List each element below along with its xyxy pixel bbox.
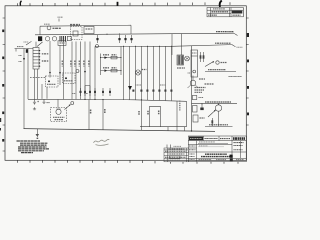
revision header text bbox=[213, 8, 225, 10]
label Q1 bbox=[142, 69, 147, 71]
diode CR10 bbox=[80, 88, 82, 96]
test point ring bbox=[71, 102, 74, 105]
wire: mid bus A bbox=[28, 98, 134, 101]
rectifier ladder wires bbox=[100, 54, 102, 76]
terminal box TB1 bbox=[58, 41, 66, 46]
wire: L1 drop to L2 bbox=[130, 25, 132, 34]
diode CR11 bbox=[84, 88, 86, 96]
secondary drop wire 9 bbox=[171, 46, 173, 100]
label -12V out bbox=[209, 124, 228, 126]
title cells text bbox=[205, 138, 218, 140]
wire: mid bus B bbox=[134, 100, 187, 102]
diode CR18 bbox=[140, 90, 142, 92]
wire: AC input line bbox=[15, 48, 34, 50]
transistor Q1 bbox=[135, 70, 140, 75]
tap switch blade bbox=[37, 42, 43, 47]
primary vertical wire J1-6 bbox=[89, 42, 91, 100]
secondary drop wire 2 bbox=[129, 46, 131, 100]
node (6) circle bbox=[96, 45, 99, 48]
wire row A bbox=[101, 57, 122, 59]
wire: cap drop C9 bbox=[102, 100, 104, 130]
box divider bbox=[191, 55, 198, 57]
wire: T1 bottom leg 1 bbox=[34, 69, 36, 99]
junction dot secondary bbox=[49, 72, 51, 74]
meter top bar bbox=[57, 108, 61, 110]
resistor R28 bbox=[193, 115, 198, 122]
adjust terminal bbox=[216, 61, 219, 64]
label C9 bbox=[104, 109, 106, 114]
edge specks bbox=[0, 118, 1, 131]
diode CR16 bold bbox=[128, 86, 132, 90]
frame tick marks right bbox=[246, 18, 248, 125]
label adjust bbox=[221, 62, 227, 64]
handwritten mark bbox=[220, 1, 222, 7]
wire: strap stub 2 bbox=[46, 87, 48, 99]
parts grid (sub table) bbox=[164, 148, 188, 162]
frame tick marks left bbox=[3, 18, 5, 151]
secondary drop wire 6 bbox=[153, 46, 155, 100]
label in box bbox=[192, 52, 197, 54]
wire: aux output line bbox=[205, 70, 236, 72]
wire: main bus L2 bbox=[35, 33, 234, 35]
junction dots on L3 bbox=[123, 46, 172, 47]
label near border bbox=[229, 76, 242, 78]
wire: gnd stub bbox=[36, 129, 38, 134]
hp logo cell bbox=[189, 137, 203, 141]
primary vertical wire J1-3 bbox=[75, 42, 77, 100]
wire: secondary bus L3 bbox=[95, 45, 172, 47]
label R35 bbox=[90, 110, 92, 115]
label 115V bbox=[42, 53, 49, 55]
wire: reg feed vertical bbox=[171, 34, 173, 56]
label U1 bbox=[177, 67, 185, 69]
junction dot bottom bus bbox=[191, 130, 192, 131]
test point arrow TP1 bbox=[65, 104, 71, 109]
junction dots mid bus bbox=[84, 99, 142, 101]
notes text block bbox=[17, 141, 50, 153]
part number line bbox=[198, 142, 228, 144]
transistor Q3 bbox=[190, 80, 196, 86]
wire: T1 secondary left bbox=[49, 41, 51, 78]
wire: common output line bbox=[192, 103, 238, 105]
secondary drop wire 8 bbox=[165, 46, 167, 100]
fuse F2 (dark) bbox=[26, 49, 28, 53]
resistor R21 bbox=[200, 52, 202, 62]
transistor Q2 bbox=[185, 56, 190, 61]
resistor R25 bbox=[192, 96, 197, 100]
pass element box bbox=[191, 50, 198, 77]
diode CR30 bbox=[200, 108, 203, 111]
diode CR20 bbox=[152, 90, 154, 92]
label sense bbox=[215, 42, 231, 44]
wire: stub below filter box 2 bbox=[184, 127, 186, 131]
label meter bbox=[53, 117, 65, 119]
label common out bbox=[205, 101, 231, 103]
junction blob bbox=[23, 58, 25, 60]
wire: strap stub 1 bbox=[41, 84, 43, 99]
signature rows bbox=[189, 146, 196, 150]
T1 tap dots bbox=[39, 50, 40, 67]
revision table bbox=[207, 8, 243, 17]
wire: right rail bbox=[191, 46, 193, 131]
labels row B bbox=[103, 67, 117, 69]
bold tick mark bbox=[117, 2, 119, 6]
resistor R29 bbox=[211, 118, 213, 126]
ground symbol bbox=[36, 135, 39, 137]
labels row A bbox=[103, 54, 117, 56]
label left terminals bbox=[19, 56, 23, 62]
primary vertical wire J1-1 bbox=[63, 42, 65, 100]
wire: tie bracket bbox=[85, 86, 90, 88]
diode CR4 bbox=[131, 35, 133, 43]
sense label lines bbox=[195, 88, 206, 93]
wire: reg feed 2 bbox=[181, 34, 183, 56]
diode CR17 bbox=[132, 90, 134, 92]
switch S1 bbox=[45, 37, 49, 41]
label R25 bbox=[199, 97, 204, 99]
node (6) bbox=[76, 70, 79, 73]
wire: bleeder drop R35 bbox=[88, 99, 90, 129]
zone ref 6 bbox=[37, 137, 39, 139]
diode CR2 bbox=[119, 35, 121, 43]
wire: AC vertical 1 bbox=[23, 49, 25, 129]
wire: aux right edge bbox=[186, 101, 188, 126]
wire: meter feed bbox=[57, 100, 59, 108]
wire: top bus L1 bbox=[40, 25, 131, 26]
resistor R2 bbox=[111, 69, 117, 72]
capacitor C3 (to gnd) bbox=[42, 100, 45, 104]
junction dots ladder bbox=[100, 57, 122, 71]
transformer T1 bbox=[33, 48, 39, 70]
wire: T1 bottom leg 2 bbox=[37, 69, 39, 99]
wire: filter box right edge bbox=[176, 101, 178, 131]
lamp in box bbox=[193, 70, 196, 73]
wire: AC vertical 2 / box left edge bbox=[27, 49, 29, 100]
label aux out bbox=[208, 69, 226, 71]
fuse F1 box bbox=[67, 36, 71, 40]
zone letters left bbox=[2, 30, 4, 142]
label C10 bbox=[138, 111, 140, 116]
secondary drop wire 5 bbox=[147, 46, 149, 100]
thermal cutout (dashed box) bbox=[71, 27, 83, 40]
label above parts grid bbox=[174, 145, 182, 147]
rotated label column bbox=[179, 101, 181, 111]
wire: +5V sense line bbox=[172, 45, 232, 47]
wire: T1 secondary right bbox=[59, 45, 61, 85]
resistor R26 bbox=[193, 106, 198, 113]
junction on L2 bbox=[106, 34, 107, 35]
diode CR5 bbox=[104, 57, 107, 59]
diode CR6 bbox=[105, 69, 108, 72]
label thermal bbox=[70, 24, 80, 26]
wire: stub below filter box 1 bbox=[167, 127, 169, 131]
diode CR1 bbox=[97, 35, 99, 43]
label switch bbox=[24, 41, 29, 43]
title block bbox=[188, 136, 246, 162]
revision row text bbox=[212, 11, 229, 13]
primary vertical wire J1-4 bbox=[80, 42, 82, 100]
switch arrow bbox=[26, 41, 32, 45]
diode CR13 bbox=[94, 88, 96, 96]
label TP row bbox=[135, 84, 166, 86]
diode CR3 bbox=[125, 35, 127, 43]
diode CR12 bbox=[89, 88, 91, 96]
C1 polarity bbox=[37, 101, 39, 103]
selector contact dot bbox=[65, 77, 67, 79]
secondary drop wire 4 bbox=[141, 46, 143, 100]
boxed cell bbox=[170, 156, 181, 159]
resistor R22 bbox=[203, 52, 205, 62]
regulator IC U1 (hatched) bbox=[177, 55, 184, 65]
label C12 bbox=[158, 111, 160, 115]
wire: stubs above parts grid bbox=[167, 145, 171, 149]
secondary drop wire 3 bbox=[135, 46, 137, 100]
drawing title text bbox=[201, 154, 233, 156]
Q4 needle bbox=[208, 110, 216, 117]
meter M1 movement bbox=[56, 109, 61, 114]
K1 coil dot bbox=[48, 80, 50, 82]
wire: filter box bottom bbox=[140, 126, 187, 128]
transistor Q4 bbox=[215, 105, 221, 111]
wire: -12V output line bbox=[205, 125, 233, 127]
junction dot secondary 2 bbox=[59, 72, 61, 74]
label +5V out bbox=[216, 31, 234, 33]
meter M1 (dashed box) bbox=[51, 108, 67, 122]
label selector bbox=[64, 80, 73, 82]
parts grid text bbox=[165, 149, 186, 160]
wire: stub to tick bbox=[58, 19, 60, 22]
terminal arrow bbox=[234, 33, 238, 35]
label +C bbox=[188, 72, 191, 74]
frame tick marks bottom bbox=[18, 160, 239, 164]
border frame bbox=[5, 6, 246, 161]
lamp DS1 bbox=[52, 37, 56, 41]
bottom row: drawing number bbox=[199, 159, 227, 161]
wire: Q4 emitter drop bbox=[218, 111, 220, 126]
terminal note bbox=[237, 46, 243, 48]
fan box B1 bbox=[84, 26, 94, 33]
diode CR21 bbox=[158, 90, 160, 92]
label near bus A bbox=[72, 93, 88, 95]
relay K1 (dashed box) bbox=[46, 76, 59, 87]
pin labels on verticals bbox=[62, 61, 89, 67]
label R28 bbox=[200, 117, 205, 119]
thermal switch S2 bbox=[73, 31, 78, 36]
junction dot bbox=[84, 71, 86, 73]
junction on L2 bbox=[119, 34, 120, 35]
filter cap C10 bbox=[141, 100, 143, 130]
pencil scribble SL COMPL bbox=[94, 139, 110, 145]
label above L1 bbox=[44, 23, 50, 25]
label C3 bbox=[47, 102, 51, 104]
wire: bottom ground bus bbox=[24, 129, 216, 132]
capacitor C2 (to gnd) bbox=[33, 107, 36, 110]
secondary drop wire 1 bbox=[123, 46, 125, 99]
connector hatch block bbox=[60, 36, 65, 42]
voltage selector (dashed box) bbox=[63, 73, 76, 84]
resistor R1 bbox=[111, 56, 117, 59]
label 230V bbox=[42, 60, 49, 62]
line filter FL1 (dark module) bbox=[38, 36, 42, 41]
junction dots bbox=[201, 103, 219, 104]
dashed strap line bbox=[30, 77, 46, 79]
approval stamp dark bbox=[230, 155, 233, 158]
primary vertical wire J1-5 bbox=[84, 42, 86, 100]
wire: AC stub bbox=[15, 49, 17, 52]
label fan bbox=[86, 28, 93, 30]
secondary drop wire 7 bbox=[159, 46, 161, 100]
wire: T1 primary top bbox=[35, 42, 37, 48]
primary vertical wire J1-7 bbox=[94, 46, 96, 99]
circuit breaker CB1 bbox=[47, 26, 51, 30]
left margin marks bbox=[190, 154, 195, 160]
diode CR15 bbox=[109, 88, 111, 96]
wire: Q4 stub bbox=[202, 104, 219, 108]
frame tick marks top bbox=[18, 2, 231, 6]
diode CR23 bbox=[170, 90, 172, 92]
potentiometer arrow bbox=[205, 61, 214, 66]
component row: rectifier diodes above mid bus bbox=[80, 86, 173, 96]
label Q3 bbox=[199, 79, 214, 84]
wire row B bbox=[101, 70, 122, 72]
label K1 bbox=[47, 83, 56, 85]
diode CR14 bbox=[102, 88, 104, 96]
diode CR22 bbox=[164, 90, 166, 92]
diode CR19 bbox=[146, 90, 148, 92]
primary vertical wire J1-2 bbox=[71, 42, 73, 100]
label AC input bbox=[17, 46, 24, 48]
terminal arrow bbox=[232, 45, 236, 47]
label C11 bbox=[147, 111, 149, 115]
bold corner mark bbox=[20, 1, 21, 6]
zone letters right bbox=[247, 33, 249, 115]
label CB1 bbox=[53, 27, 62, 29]
cap bracket C11 C12 bbox=[150, 106, 161, 127]
revision stamp block bbox=[232, 11, 243, 14]
capacitor C1 (to gnd) bbox=[33, 99, 36, 104]
